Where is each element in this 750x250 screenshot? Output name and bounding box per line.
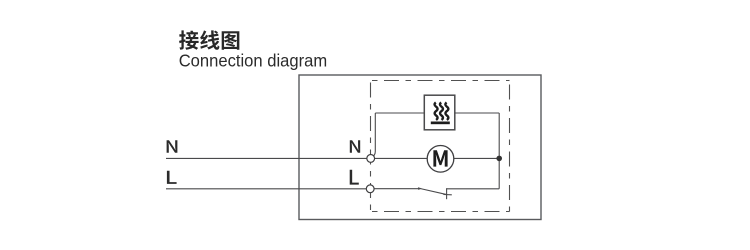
terminal L <box>366 185 374 193</box>
wire motor line <box>375 157 500 159</box>
wire heater riser <box>372 113 376 157</box>
enclosure box <box>299 75 541 220</box>
heater E1 <box>424 95 455 130</box>
motor M1 <box>427 146 454 173</box>
wire switch to node <box>447 188 500 190</box>
svg-text:Connection diagram: Connection diagram <box>179 51 328 71</box>
appliance dashed boundary <box>371 81 510 212</box>
wire right drop <box>498 113 500 189</box>
title 接线图 <box>179 30 239 49</box>
label L supply <box>167 171 177 184</box>
wire N supply <box>166 157 367 159</box>
label L terminal <box>350 170 359 185</box>
wire L supply <box>166 188 366 190</box>
wire heater branch top <box>375 112 499 114</box>
label N terminal <box>350 140 360 153</box>
label N supply <box>167 140 178 153</box>
terminal N <box>367 155 375 163</box>
wire L terminal to switch <box>374 188 420 190</box>
junction node <box>496 156 502 162</box>
switch S1 <box>418 187 452 199</box>
